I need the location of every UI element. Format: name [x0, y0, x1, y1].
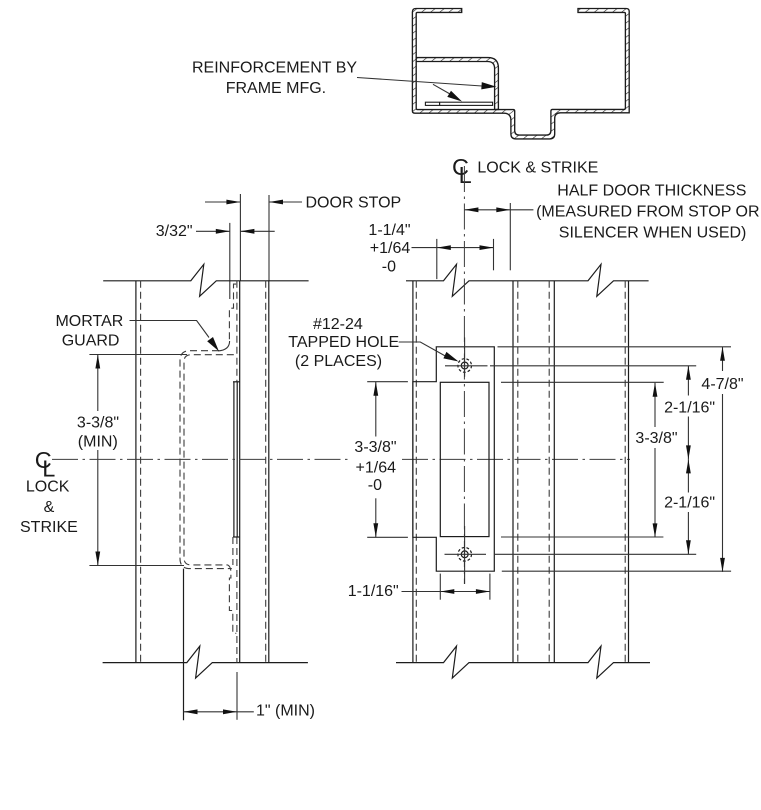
svg-text:3/32": 3/32": [156, 223, 193, 240]
svg-text:L: L: [459, 162, 472, 188]
extension line door face: [239, 194, 241, 281]
stop far face edge (solid): [268, 281, 270, 663]
extension line outline bottom (to 4-7/8 dim): [502, 570, 731, 572]
svg-text:+1/64: +1/64: [356, 459, 397, 476]
svg-text:3-3/8": 3-3/8": [77, 415, 119, 432]
dimension 3-3/8 (MIN): [89, 354, 187, 356]
svg-text:&: &: [44, 499, 55, 516]
bottom tapped hole: [458, 548, 472, 562]
svg-text:(2 PLACES): (2 PLACES): [295, 353, 382, 370]
LEFT VIEW: jamb rabbet edge (solid): [135, 281, 137, 663]
svg-text:DOOR STOP: DOOR STOP: [306, 195, 402, 212]
mortar guard inner contour (dashed): [184, 355, 234, 565]
mortar guard outer contour (dashed): [180, 351, 232, 569]
frame face edge (solid): [628, 281, 630, 663]
dimension 1-1/16": [439, 574, 441, 600]
dashed stub below lip: [232, 537, 234, 565]
strike cutout rectangle: [440, 382, 489, 536]
break line bottom (left view): [103, 646, 308, 678]
svg-text:4-7/8": 4-7/8": [701, 376, 743, 393]
svg-text:1-1/16": 1-1/16": [348, 583, 399, 600]
extension line cutout top (to 3-3/8 dim): [501, 381, 664, 383]
extension line stop face (right view, above break): [509, 203, 511, 270]
dimension 3-3/8" (right side): [654, 383, 656, 427]
extension line cutout left (above break): [436, 239, 438, 279]
dimension 1" (MIN): [184, 711, 254, 713]
svg-text:-0: -0: [382, 259, 396, 276]
svg-text:(MIN): (MIN): [78, 433, 118, 450]
top tapped hole: [458, 359, 472, 373]
extension line outline top (to 4-7/8 dim): [498, 346, 732, 348]
extension line stop face (below break): [236, 672, 238, 720]
dimension 4-7/8": [722, 347, 724, 371]
stop far hidden edge (dashed): [548, 281, 550, 663]
svg-text:1-1/4": 1-1/4": [368, 222, 410, 239]
svg-text:SILENCER WHEN USED): SILENCER WHEN USED): [559, 224, 747, 241]
strike lip hidden hook bottom (dashed): [228, 565, 237, 633]
svg-text:REINFORCEMENT BY: REINFORCEMENT BY: [192, 59, 357, 76]
extension line top hole (to 2-1/16 dim): [490, 365, 696, 367]
lip bottom tick: [233, 536, 240, 538]
stop face hidden edge (dashed): [236, 281, 238, 382]
leader branch to plate: [433, 84, 450, 94]
svg-text:3-3/8": 3-3/8": [635, 430, 677, 447]
svg-text:2-1/16": 2-1/16": [664, 494, 715, 511]
svg-text:GUARD: GUARD: [62, 333, 120, 350]
RIGHT VIEW: rabbet edge (solid): [412, 281, 414, 663]
vertical centerline of strike: [463, 166, 465, 584]
svg-text:FRAME MFG.: FRAME MFG.: [226, 80, 326, 97]
leader to tapped hole: [399, 342, 448, 358]
svg-text:TAPPED HOLE: TAPPED HOLE: [288, 334, 399, 351]
break line top (left view): [103, 264, 308, 296]
svg-text:3-3/8": 3-3/8": [354, 439, 396, 456]
jamb rabbet hidden edge (dashed): [140, 281, 142, 663]
leader to channel wall: [357, 78, 482, 87]
strike faceplate prep outline: [413, 347, 494, 571]
stop near corner (solid): [512, 281, 514, 663]
stop face edge (solid): [239, 281, 241, 663]
svg-text:LOCK & STRIKE: LOCK & STRIKE: [477, 160, 598, 177]
stop far face hidden edge (dashed): [265, 281, 267, 663]
svg-text:+1/64: +1/64: [370, 240, 411, 257]
reinforcement channel inside frame profile (hatched): [416, 58, 498, 110]
break line top (right view): [406, 264, 649, 296]
frame face hidden edge (dashed): [624, 281, 626, 663]
svg-text:LOCK: LOCK: [26, 479, 70, 496]
dimension 2-1/16" bottom: [687, 459, 689, 492]
svg-text:STRIKE: STRIKE: [20, 519, 78, 536]
frame head profile section (hatched sheet): [412, 9, 629, 139]
reinforcement plate inside channel: [425, 102, 492, 105]
svg-text:#12-24: #12-24: [313, 316, 363, 333]
svg-text:MORTAR: MORTAR: [55, 313, 123, 330]
svg-text:-0: -0: [368, 477, 382, 494]
extension line guard back (to 1in dim): [183, 569, 185, 721]
dimension HALF DOOR THICKNESS: [464, 209, 533, 211]
lip top tick: [233, 381, 240, 383]
stop far corner (solid): [553, 281, 555, 663]
extension line stop face (left view): [268, 195, 270, 281]
svg-text:HALF DOOR THICKNESS: HALF DOOR THICKNESS: [557, 183, 746, 200]
svg-text:2-1/16": 2-1/16": [664, 399, 715, 416]
leader to mortar guard: [130, 321, 210, 338]
extension line cutout right (above break): [493, 239, 495, 270]
extension line cutout bottom (to 3-3/8 dim): [501, 536, 663, 538]
extension line backset face: [229, 223, 231, 299]
rabbet hidden edge (dashed): [415, 281, 417, 663]
extension line bottom hole (to 2-1/16 dim): [494, 553, 696, 555]
dimension 2-1/16" top: [687, 366, 689, 396]
stop near hidden edge (dashed): [517, 281, 519, 663]
dimension 3-3/8 +1/64 -0 (left of right view): [367, 381, 408, 383]
svg-text:(MEASURED FROM STOP OR: (MEASURED FROM STOP OR: [536, 203, 759, 220]
break line bottom (right view): [396, 646, 650, 678]
horizontal centerline lock & strike: [52, 458, 348, 460]
svg-text:1" (MIN): 1" (MIN): [256, 703, 315, 720]
strike box / lip edge-on (solid): [233, 382, 235, 537]
strike lip hidden hook top (dashed): [229, 284, 236, 342]
